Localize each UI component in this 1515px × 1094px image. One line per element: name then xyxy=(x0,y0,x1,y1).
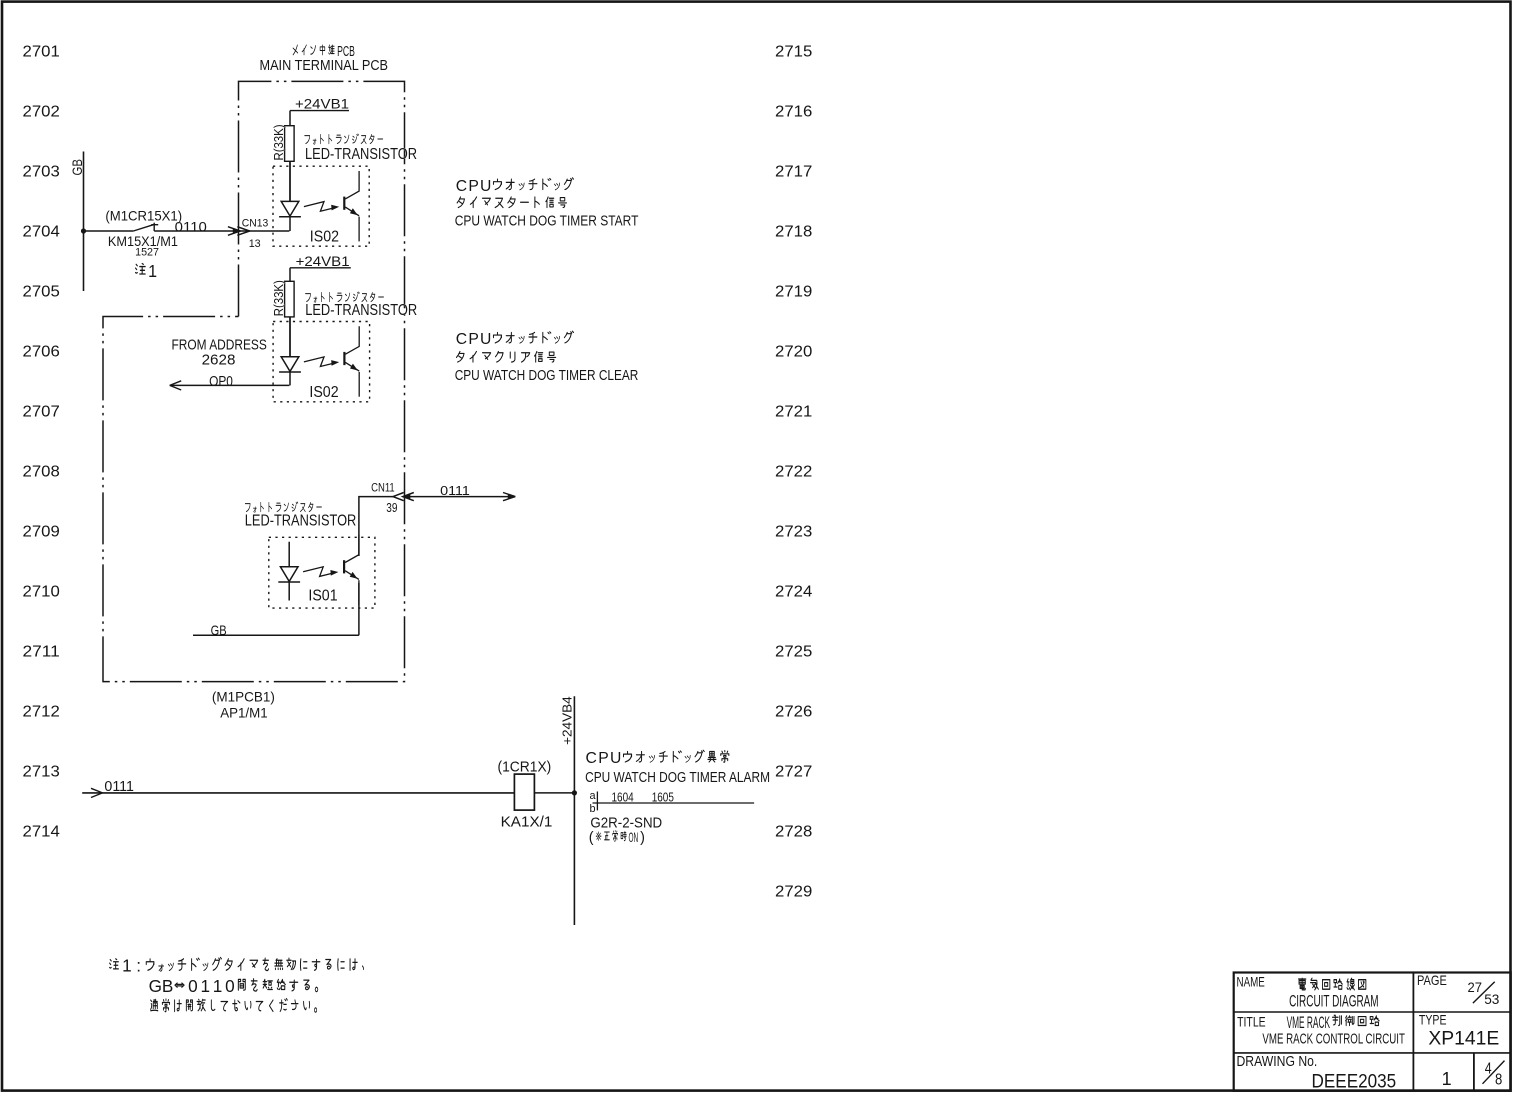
svg-text:G2R-2-SND: G2R-2-SND xyxy=(590,815,662,832)
svg-text:1527: 1527 xyxy=(135,247,159,259)
svg-text:PAGE: PAGE xyxy=(1417,973,1447,988)
svg-text:2707: 2707 xyxy=(23,403,60,420)
wire coil to +24VB4 rail xyxy=(534,792,574,794)
wire rung 2704 from GB to switch xyxy=(84,230,134,232)
wire rung 2704 switch to CN13 xyxy=(154,230,289,232)
svg-text:13: 13 xyxy=(249,238,261,250)
optocoupler IS02-2 LED xyxy=(279,317,301,386)
svg-text:2711: 2711 xyxy=(23,643,60,660)
svg-text:2718: 2718 xyxy=(775,223,812,240)
note line 3 jp xyxy=(151,999,317,1013)
wire GB to IS01 emitter xyxy=(193,634,359,636)
svg-text:CN13: CN13 xyxy=(242,218,268,230)
optocoupler IS02-2 light arrow xyxy=(304,357,337,367)
svg-text:2726: 2726 xyxy=(775,703,812,720)
svg-text:XP141E: XP141E xyxy=(1428,1029,1499,1050)
photo-transistor label jp #3 xyxy=(245,502,321,512)
svg-text:2712: 2712 xyxy=(23,703,60,720)
svg-text:R(33K): R(33K) xyxy=(271,125,286,161)
svg-text:0110: 0110 xyxy=(175,219,207,235)
svg-text:IS02: IS02 xyxy=(309,384,338,401)
svg-text:+24VB1: +24VB1 xyxy=(295,96,349,111)
svg-text:2628: 2628 xyxy=(202,352,236,368)
optocoupler IS01 light arrow xyxy=(303,567,336,577)
svg-text:0: 0 xyxy=(188,976,198,996)
svg-text:P: P xyxy=(598,750,608,767)
svg-text:1: 1 xyxy=(200,976,210,996)
optocoupler IS01 dotted box xyxy=(269,537,375,608)
signal text CPU watchdog timer start (jp line1) xyxy=(456,178,574,195)
optocoupler IS02-1 phototransistor xyxy=(343,197,345,210)
svg-text:2715: 2715 xyxy=(775,43,812,60)
svg-text:+24VB4: +24VB4 xyxy=(559,696,574,745)
svg-text:1: 1 xyxy=(122,956,132,976)
svg-text:C: C xyxy=(456,331,467,348)
svg-text:LED-TRANSISTOR: LED-TRANSISTOR xyxy=(245,513,356,530)
svg-text:VME RACK: VME RACK xyxy=(1287,1014,1330,1032)
svg-text:53: 53 xyxy=(1484,992,1499,1008)
svg-text:2727: 2727 xyxy=(775,763,812,780)
svg-text:2729: 2729 xyxy=(775,883,812,900)
svg-text:OP0: OP0 xyxy=(209,374,233,390)
optocoupler IS02-1 light arrow xyxy=(304,202,337,212)
svg-text:2724: 2724 xyxy=(775,583,813,600)
svg-text:(M1PCB1): (M1PCB1) xyxy=(212,689,275,705)
svg-text:2701: 2701 xyxy=(23,43,60,60)
connector CN11 chevrons xyxy=(393,493,404,501)
title block column divider xyxy=(1412,973,1414,1091)
right rung numbers 2715-2729 xyxy=(775,43,813,900)
title block bottom-row divider xyxy=(1473,1053,1475,1091)
svg-text:39: 39 xyxy=(386,501,397,515)
svg-text:2708: 2708 xyxy=(23,463,60,480)
relay note (normally ON) jp xyxy=(589,830,645,846)
junction node on +24VB4 rail xyxy=(572,790,577,795)
signal text (jp line2) xyxy=(456,351,555,362)
svg-text:2725: 2725 xyxy=(775,643,812,660)
dash-dot board outline MAIN TERMINAL PCB / M1PCB1 xyxy=(103,81,405,681)
svg-text:2728: 2728 xyxy=(775,823,812,840)
connector CN13 chevrons xyxy=(228,227,240,236)
net 0111 double arrow wire xyxy=(403,496,516,498)
relay coil 1CR1X xyxy=(514,774,534,810)
svg-text:2719: 2719 xyxy=(775,283,812,300)
svg-text:2716: 2716 xyxy=(775,103,812,120)
wire resistor2 to LED2 xyxy=(289,317,291,357)
svg-text:): ) xyxy=(640,830,645,846)
svg-text:2722: 2722 xyxy=(775,463,812,480)
svg-text:2714: 2714 xyxy=(23,823,61,840)
svg-text:2713: 2713 xyxy=(23,763,60,780)
resistor R(33K) second xyxy=(285,281,295,317)
optocoupler IS01 phototransistor xyxy=(343,560,345,573)
svg-text:TYPE: TYPE xyxy=(1419,1013,1447,1028)
signal text (jp line2) xyxy=(457,197,566,208)
svg-text:2717: 2717 xyxy=(775,163,812,180)
svg-text:LED-TRANSISTOR: LED-TRANSISTOR xyxy=(305,302,417,319)
GB rail vertical wire xyxy=(83,152,85,292)
svg-text:GB: GB xyxy=(70,159,86,176)
svg-text:2705: 2705 xyxy=(23,283,60,300)
optocoupler IS02-1 LED xyxy=(279,161,301,231)
svg-text:GB: GB xyxy=(211,623,227,639)
svg-text:U: U xyxy=(480,331,491,348)
svg-text:1: 1 xyxy=(148,261,157,281)
wire +24VB1 to resistor 2 xyxy=(289,268,291,282)
svg-text:P: P xyxy=(468,178,478,195)
svg-text:DEEE2035: DEEE2035 xyxy=(1312,1072,1397,1093)
svg-text:FROM ADDRESS: FROM ADDRESS xyxy=(172,338,267,354)
photo-transistor label jp #1 xyxy=(305,134,383,144)
svg-text:DRAWING No.: DRAWING No. xyxy=(1237,1053,1318,1070)
title jp VME RACK制御回路 xyxy=(1287,1014,1380,1032)
photo-transistor label jp #2 xyxy=(305,292,383,302)
svg-text:(M1CR15X1): (M1CR15X1) xyxy=(105,208,182,224)
optocoupler IS02-2 dotted box xyxy=(273,322,370,402)
svg-text:LED-TRANSISTOR: LED-TRANSISTOR xyxy=(305,146,417,163)
svg-text:CN11: CN11 xyxy=(371,481,395,494)
svg-text:b: b xyxy=(590,803,596,815)
svg-text:(1CR1X): (1CR1X) xyxy=(498,759,552,775)
signal text CPU watchdog timer clear (jp line1) xyxy=(456,331,574,348)
svg-text:1605: 1605 xyxy=(652,791,674,805)
svg-text:ON: ON xyxy=(629,830,639,846)
title block name jp xyxy=(1298,978,1365,990)
svg-text:CIRCUIT DIAGRAM: CIRCUIT DIAGRAM xyxy=(1289,993,1379,1011)
svg-text:P: P xyxy=(468,331,478,348)
svg-text:(: ( xyxy=(589,830,594,846)
svg-text:NAME: NAME xyxy=(1237,974,1265,989)
note ref 注1 xyxy=(136,261,158,281)
header label main terminal PCB (jp) xyxy=(293,44,355,60)
svg-text:IS02: IS02 xyxy=(310,228,339,245)
svg-text:TITLE: TITLE xyxy=(1237,1014,1266,1029)
optocoupler IS02-1 dotted box xyxy=(273,166,369,246)
svg-text:C: C xyxy=(586,750,597,767)
resistor R(33K) top xyxy=(285,126,295,162)
signal text CPU watchdog alarm (jp) xyxy=(586,750,729,767)
svg-text:IS01: IS01 xyxy=(308,588,337,605)
svg-text:C: C xyxy=(456,178,467,195)
svg-text:a: a xyxy=(590,790,597,802)
svg-text:R(33K): R(33K) xyxy=(271,280,286,316)
wire OP0 output with left arrow xyxy=(170,384,290,386)
svg-text:2704: 2704 xyxy=(23,223,61,240)
junction node on GB rail xyxy=(81,228,86,233)
wire resistor to LED xyxy=(289,161,291,201)
svg-text:1604: 1604 xyxy=(612,791,634,805)
optocoupler IS01 LED xyxy=(278,542,300,601)
svg-text:2702: 2702 xyxy=(23,103,60,120)
svg-text:2723: 2723 xyxy=(775,523,812,540)
svg-text:27: 27 xyxy=(1468,980,1483,996)
svg-text:MAIN TERMINAL PCB: MAIN TERMINAL PCB xyxy=(260,57,389,74)
svg-text:2720: 2720 xyxy=(775,343,812,360)
svg-text:2703: 2703 xyxy=(23,163,60,180)
wire rung 2713 with arrow xyxy=(82,792,514,794)
svg-text:0: 0 xyxy=(225,976,235,996)
svg-text:CPU WATCH DOG TIMER START: CPU WATCH DOG TIMER START xyxy=(455,212,639,229)
svg-text:U: U xyxy=(610,750,621,767)
svg-text:CPU WATCH DOG TIMER ALARM: CPU WATCH DOG TIMER ALARM xyxy=(585,769,770,786)
left rung numbers 2701-2714 xyxy=(23,43,61,840)
svg-text:2709: 2709 xyxy=(23,523,60,540)
title block outer frame xyxy=(1234,973,1511,1091)
svg-text:2721: 2721 xyxy=(775,403,812,420)
svg-text:2706: 2706 xyxy=(23,343,60,360)
optocoupler IS02-2 phototransistor xyxy=(343,352,345,365)
svg-text:8: 8 xyxy=(1495,1072,1503,1089)
svg-text:VME RACK CONTROL CIRCUIT: VME RACK CONTROL CIRCUIT xyxy=(1262,1031,1405,1048)
svg-text:AP1/M1: AP1/M1 xyxy=(220,705,268,721)
note line 2 jp xyxy=(149,976,318,996)
wire IS01 collector to CN11 xyxy=(359,497,395,636)
svg-text:1: 1 xyxy=(213,976,223,996)
svg-text:CPU WATCH DOG TIMER CLEAR: CPU WATCH DOG TIMER CLEAR xyxy=(455,367,639,384)
svg-text:KA1X/1: KA1X/1 xyxy=(501,814,553,831)
svg-text::: : xyxy=(136,956,141,976)
svg-text:0111: 0111 xyxy=(440,483,470,498)
svg-text:U: U xyxy=(480,178,491,195)
svg-text:2710: 2710 xyxy=(23,583,60,600)
+24VB4 rail vertical wire xyxy=(573,696,575,925)
svg-text:1: 1 xyxy=(1442,1069,1452,1089)
svg-text:B: B xyxy=(162,976,173,996)
relay contact switch M1CR15X1 xyxy=(133,224,154,231)
svg-text:G: G xyxy=(149,976,162,996)
note line 1 jp xyxy=(110,956,364,976)
svg-text:+24VB1: +24VB1 xyxy=(296,254,350,269)
wire +24VB1 to resistor xyxy=(289,111,291,126)
title block row dividers xyxy=(1234,1011,1511,1013)
